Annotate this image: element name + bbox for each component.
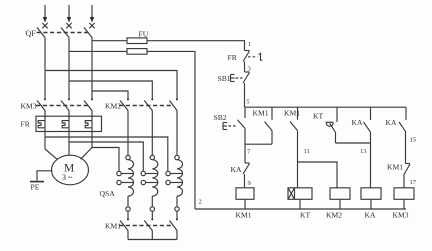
svg-text:KM2: KM2 [105, 102, 121, 111]
contact KM1 aux 2 [290, 107, 298, 188]
wire control bottom rail [195, 208, 406, 210]
supply line L3 arrow [89, 5, 94, 28]
wire control top rail [245, 106, 407, 108]
contactor KM1 star contact 1 [120, 211, 129, 239]
svg-text:QSA: QSA [100, 189, 116, 198]
ground PE [30, 171, 53, 182]
svg-text:KA: KA [386, 118, 397, 127]
contactor KM3 main contact 2 [61, 98, 70, 155]
svg-text:SB2: SB2 [214, 113, 227, 122]
wire KM2 coil to rail [339, 199, 341, 209]
contactor KM1 star linkage [119, 225, 172, 227]
wire tap feed from phase2 to QSA winding 2 [69, 142, 143, 171]
svg-text:17: 17 [410, 179, 417, 186]
wire phase3 vertical [91, 38, 93, 100]
wire phase3 branch to KM2 contact 1 [92, 91, 128, 99]
svg-text:13: 13 [360, 148, 367, 155]
thermal relay FR heater box [36, 116, 102, 131]
contactor KM2 linkage [119, 105, 173, 107]
svg-text:KM1: KM1 [387, 163, 403, 172]
breaker QF pole 3 [84, 28, 92, 38]
svg-text:KA: KA [231, 165, 242, 174]
wire tap feed from phase3 to QSA winding 1 [92, 148, 119, 172]
svg-text:11: 11 [304, 148, 310, 155]
wire KM3 coil to rail [403, 199, 405, 209]
wire KA coil to rail [370, 199, 372, 209]
pushbutton SB1 (stop, NC) [231, 72, 250, 83]
contactor KM1 star contact 2 [144, 211, 153, 239]
wire phase1 vertical [44, 38, 46, 100]
svg-text:KM1: KM1 [284, 109, 300, 118]
svg-text:KA: KA [352, 118, 363, 127]
svg-text:3 ~: 3 ~ [62, 173, 73, 182]
svg-text:KA: KA [365, 211, 376, 220]
fuse FU2 [127, 49, 147, 55]
svg-text:FR: FR [21, 120, 31, 129]
wire node 3 [244, 62, 246, 73]
wire KM1 coil to rail [244, 199, 246, 209]
svg-text:FU: FU [139, 30, 149, 39]
svg-text:1: 1 [248, 41, 251, 48]
breaker QF pole 1 [37, 28, 45, 38]
thermal relay FR NC contact (control) [243, 51, 262, 62]
contactor KM1 star contact 3 [170, 211, 179, 239]
contactor KM3 linkage [36, 105, 89, 107]
fuse FU1 [127, 38, 147, 44]
pushbutton SB2 (start, NO) [223, 107, 245, 129]
relay KA NC contact [243, 163, 250, 188]
contactor KM2 main contact 3 [170, 98, 179, 155]
svg-text:KM1: KM1 [253, 109, 269, 118]
coil KM1 [236, 188, 254, 200]
wire phase1 branch to KM2 contact 3 [45, 71, 177, 100]
svg-text:FR: FR [228, 53, 238, 62]
wire phase2 branch to KM2 contact 2 [69, 81, 152, 99]
wire node 11 branch to KM2 coil [298, 162, 338, 188]
contact KA NO 1 [364, 107, 371, 188]
coil KM2 [330, 188, 350, 200]
contactor KM3 main contact 3 [84, 98, 93, 147]
svg-text:2: 2 [199, 199, 202, 206]
wire fuse feed 2 [69, 50, 127, 52]
svg-text:KM2: KM2 [326, 211, 342, 220]
wire KT coil to rail [299, 199, 301, 209]
autotransformer QSA winding 1 [117, 155, 134, 211]
autotransformer QSA winding 2 [141, 155, 158, 211]
wire SB2 to node 7 [244, 129, 246, 164]
coil KM3 [394, 188, 414, 200]
svg-text:KM1: KM1 [105, 222, 121, 231]
wire node 5 [244, 83, 246, 107]
FR heater element 2 [62, 121, 69, 128]
svg-text:PE: PE [31, 183, 40, 192]
wire FR out 1 to motor [45, 149, 57, 159]
contact KM1 aux (self hold) [265, 107, 273, 144]
wire fuse2 to bottom rail (net 2) [147, 51, 195, 209]
svg-text:QF: QF [26, 29, 37, 38]
svg-text:KT: KT [300, 211, 310, 220]
coil KT (time relay) [288, 188, 312, 200]
wire tap feed from phase1 to QSA winding 3 [45, 137, 168, 171]
contactor KM2 main contact 2 [144, 98, 153, 155]
motor M 3~ [52, 155, 89, 185]
svg-text:SB1: SB1 [218, 74, 231, 83]
FR heater element 3 [85, 121, 92, 128]
supply line L2 arrow [66, 5, 71, 28]
coil KA [361, 188, 381, 200]
contact KM1 NC interlock [404, 164, 411, 188]
svg-text:KM1: KM1 [236, 211, 252, 220]
svg-text:KM3: KM3 [393, 211, 409, 220]
autotransformer QSA winding 3 [166, 155, 183, 211]
svg-text:KM3: KM3 [21, 102, 37, 111]
contact KT delayed NO [326, 107, 338, 143]
wire FR out 3 to motor [81, 148, 92, 160]
contactor KM2 main contact 1 [120, 98, 129, 155]
wire fuse feed 1 [92, 40, 127, 42]
svg-text:15: 15 [410, 137, 417, 144]
contact KA NO 2 [399, 107, 406, 163]
breaker QF pole 2 [61, 28, 69, 38]
svg-text:KT: KT [313, 112, 323, 121]
wire KM1 holdin join [245, 143, 272, 145]
supply line L1 arrow [42, 5, 47, 28]
wire fuse1 to control node 1 [147, 41, 245, 51]
wire star point bus [128, 239, 177, 241]
wire KT branch join [336, 142, 371, 144]
breaker QF linkage [37, 32, 89, 34]
contactor KM3 main contact 1 [37, 98, 46, 149]
wire phase2 vertical [68, 38, 70, 100]
FR heater element 1 [38, 121, 45, 128]
